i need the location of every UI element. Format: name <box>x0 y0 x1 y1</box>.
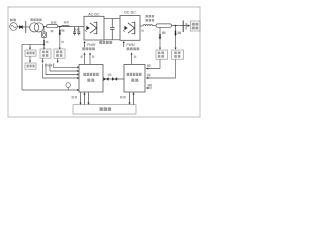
svg-text:DC-DC: DC-DC <box>124 11 136 15</box>
svg-text:PWM: PWM <box>87 43 95 47</box>
svg-text:AC-DC: AC-DC <box>88 13 100 17</box>
svg-text:PWM: PWM <box>126 43 134 47</box>
